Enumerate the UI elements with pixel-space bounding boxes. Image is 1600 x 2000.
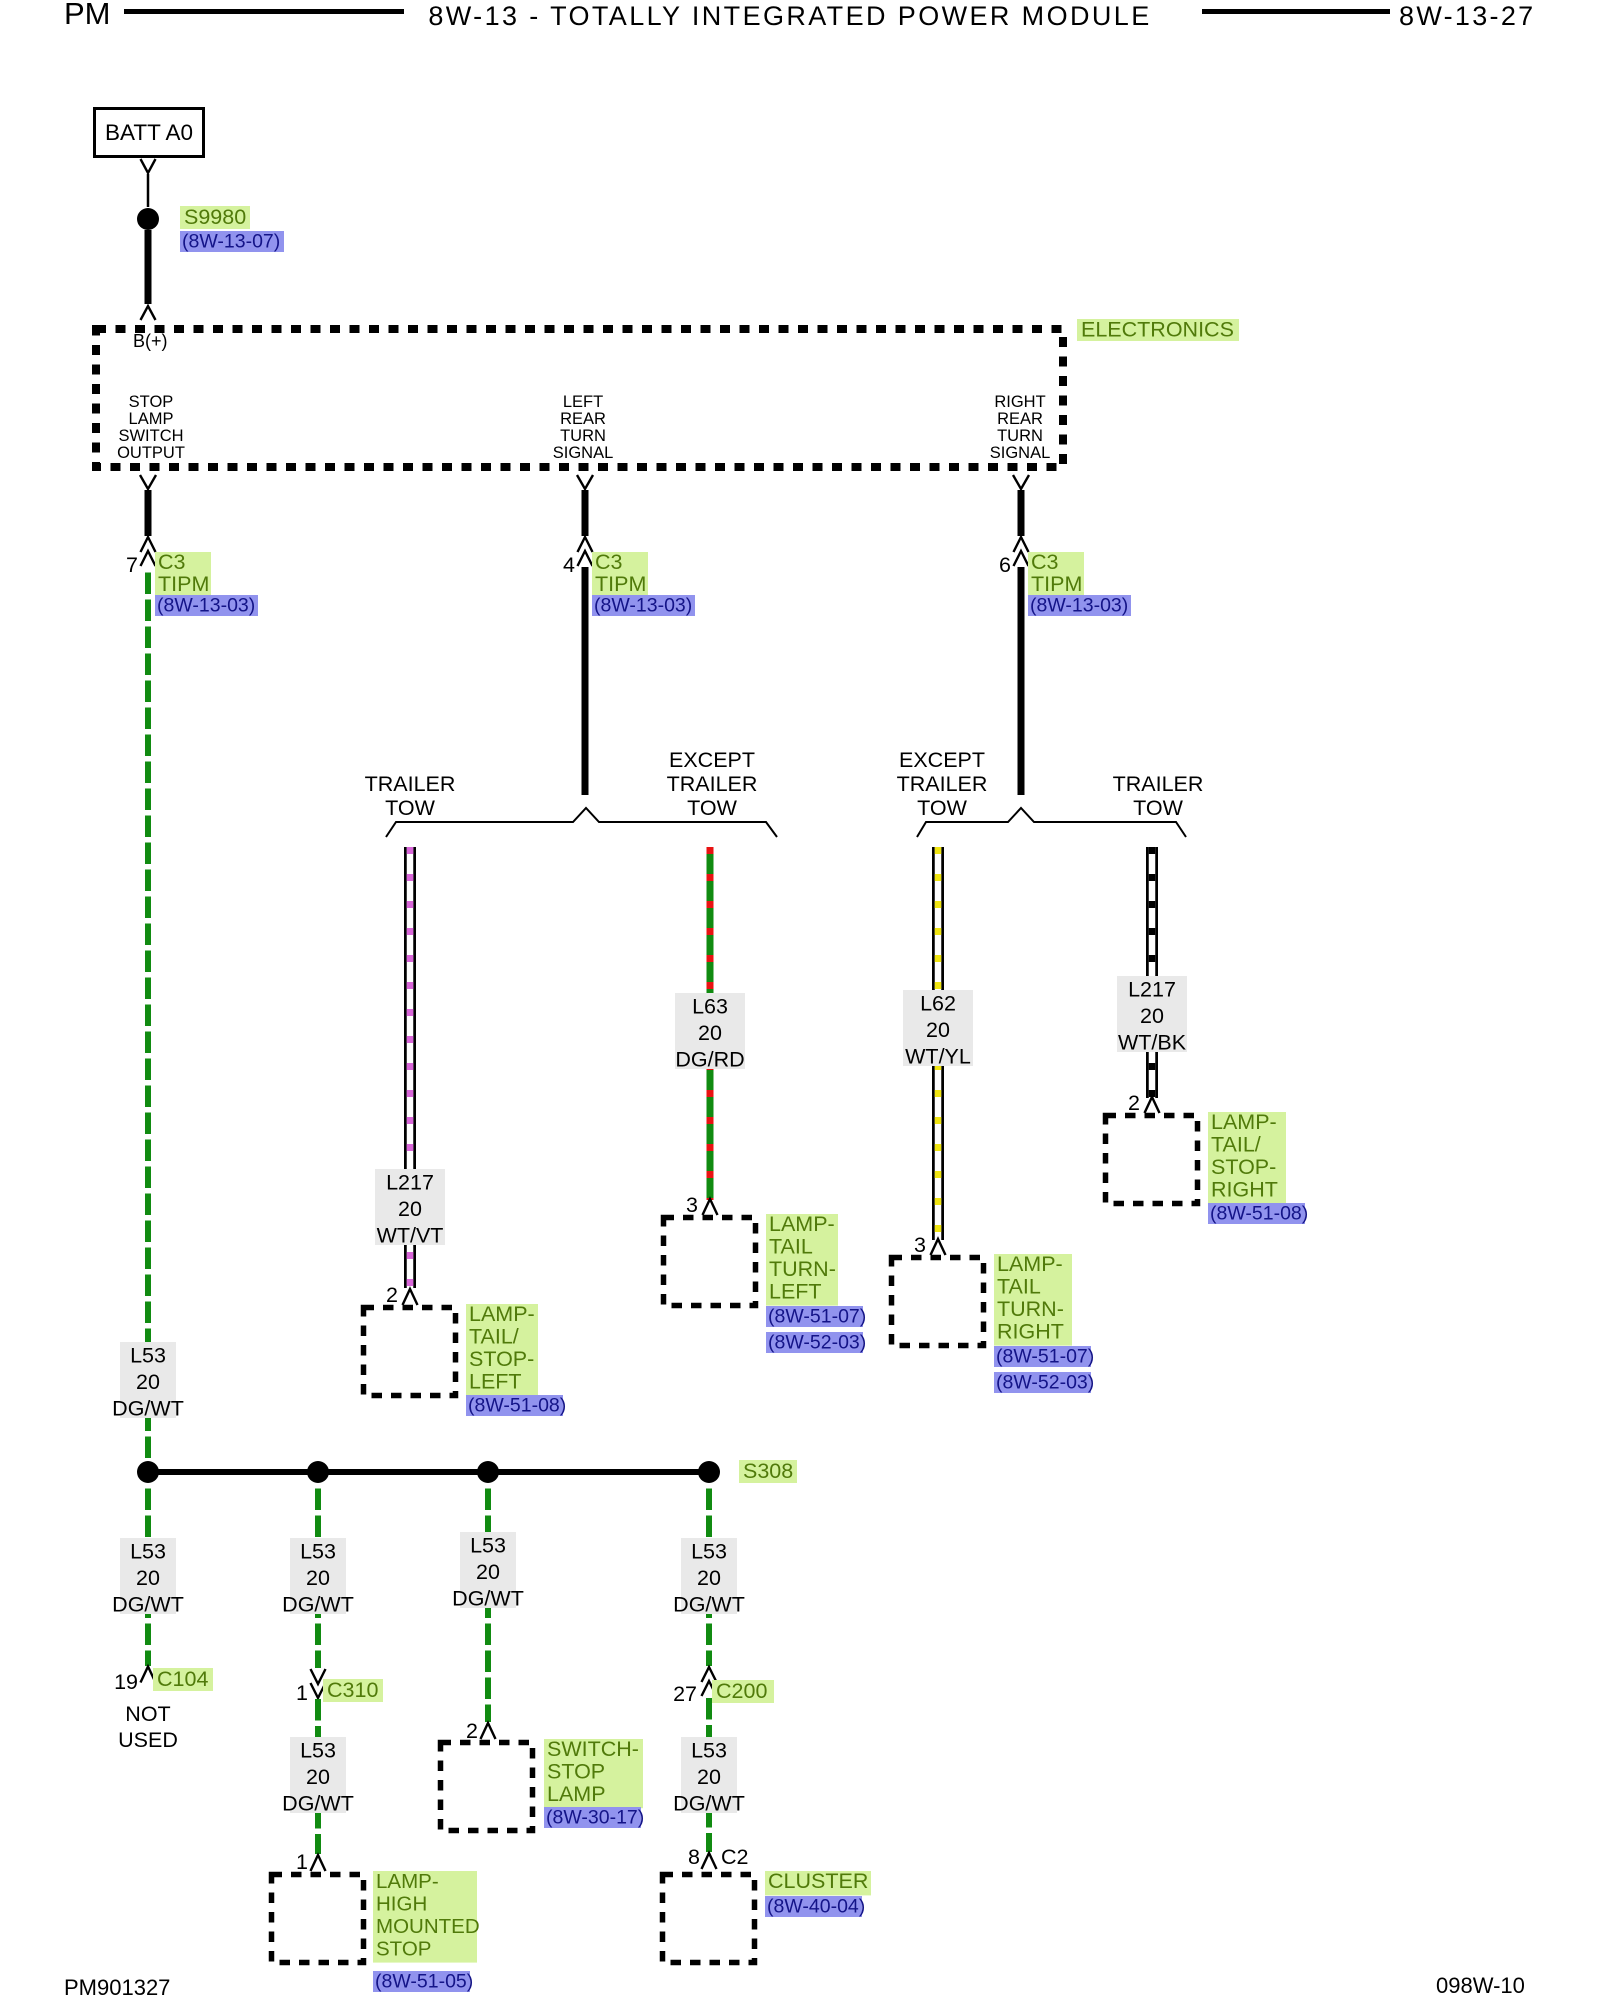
svg-text:C3: C3 bbox=[158, 550, 186, 574]
splice dot S308 #2 bbox=[307, 1461, 329, 1483]
splice dot S308 #1 bbox=[137, 1461, 159, 1483]
svg-text:(8W-30-17): (8W-30-17) bbox=[546, 1807, 644, 1829]
wire from S9980 to TIPM B(+) bbox=[145, 230, 152, 304]
connector half-arrow at TIPM B(+) input bbox=[141, 306, 156, 320]
label C3 TIPM (right) bbox=[1028, 552, 1084, 598]
brace splitting left rear turn signal bbox=[386, 808, 777, 837]
svg-text:TURN: TURN bbox=[560, 427, 606, 445]
svg-text:LAMP-: LAMP- bbox=[769, 1212, 835, 1236]
label (8W-13-07) bbox=[180, 231, 284, 252]
in-line connector C3 (double chevron) bbox=[1014, 537, 1029, 552]
svg-text:HIGH: HIGH bbox=[376, 1893, 427, 1916]
svg-text:7: 7 bbox=[126, 553, 138, 577]
svg-text:(8W-51-08): (8W-51-08) bbox=[1210, 1203, 1308, 1225]
connector half-arrow into lamp tail turn right bbox=[931, 1239, 946, 1255]
svg-text:DG/WT: DG/WT bbox=[112, 1397, 184, 1421]
svg-text:L53: L53 bbox=[691, 1739, 727, 1763]
wire L53 20 DG/WT drop 4 upper bbox=[706, 1483, 712, 1666]
svg-text:TOW: TOW bbox=[1133, 796, 1183, 820]
wire right rear turn signal trunk (right column) bbox=[1018, 567, 1025, 795]
svg-text:TIPM: TIPM bbox=[1031, 572, 1082, 596]
svg-text:(8W-13-03): (8W-13-03) bbox=[157, 595, 255, 617]
connector half-arrow into lamp high mounted stop bbox=[311, 1855, 326, 1871]
svg-text:LAMP-: LAMP- bbox=[376, 1870, 439, 1893]
in-line connector C3 (double chevron) bbox=[578, 537, 593, 552]
svg-text:NOT: NOT bbox=[125, 1702, 170, 1726]
svg-text:C2: C2 bbox=[721, 1845, 748, 1869]
svg-text:27: 27 bbox=[673, 1682, 697, 1706]
label C310 bbox=[323, 1679, 383, 1702]
connector half-arrow into lamp tail/stop left bbox=[403, 1289, 418, 1305]
svg-text:STOP: STOP bbox=[376, 1937, 431, 1960]
label C3 TIPM (center) bbox=[592, 552, 648, 598]
svg-text:20: 20 bbox=[398, 1197, 422, 1221]
svg-text:TRAILER: TRAILER bbox=[667, 772, 758, 796]
svg-text:DG/WT: DG/WT bbox=[282, 1792, 354, 1816]
label (8W-51-07) right bbox=[994, 1346, 1091, 1367]
svg-text:TURN-: TURN- bbox=[769, 1257, 836, 1281]
splice bus S308 bbox=[148, 1469, 709, 1475]
svg-text:2: 2 bbox=[466, 1719, 478, 1743]
label LAMP-TAIL/STOP-RIGHT bbox=[1208, 1112, 1286, 1204]
svg-text:LAMP: LAMP bbox=[547, 1782, 606, 1806]
svg-text:SWITCH: SWITCH bbox=[118, 427, 183, 445]
svg-text:TAIL/: TAIL/ bbox=[1211, 1133, 1261, 1157]
wire L217 20 WT/VT bbox=[404, 847, 416, 1288]
svg-text:B(+): B(+) bbox=[133, 331, 168, 351]
connector half-arrow into lamp tail/stop right bbox=[1145, 1097, 1160, 1113]
svg-text:20: 20 bbox=[306, 1765, 330, 1789]
svg-text:C3: C3 bbox=[595, 550, 623, 574]
wire label L53 20 DG/WT drop 4 lower bbox=[681, 1737, 737, 1813]
svg-text:LAMP: LAMP bbox=[129, 410, 174, 428]
connector half-arrow at TIPM output x=585 bbox=[577, 475, 593, 489]
svg-text:L53: L53 bbox=[130, 1540, 166, 1564]
svg-text:LEFT: LEFT bbox=[769, 1279, 822, 1303]
svg-text:L53: L53 bbox=[130, 1344, 166, 1368]
wire TIPM output stub bbox=[145, 490, 152, 536]
wire label L63 20 DG/RD bbox=[675, 993, 745, 1069]
module box TIPM ELECTRONICS (dashed) bbox=[96, 329, 1063, 467]
label (8W-52-03) right bbox=[994, 1372, 1091, 1393]
svg-text:TOW: TOW bbox=[917, 796, 967, 820]
svg-text:L53: L53 bbox=[691, 1540, 727, 1564]
svg-text:SWITCH-: SWITCH- bbox=[547, 1737, 639, 1761]
svg-text:LAMP-: LAMP- bbox=[469, 1302, 535, 1326]
svg-text:20: 20 bbox=[697, 1765, 721, 1789]
label LAMP-TAIL TURN-LEFT bbox=[766, 1214, 838, 1306]
label (8W-52-03) left bbox=[766, 1332, 863, 1353]
svg-text:(8W-51-07): (8W-51-07) bbox=[768, 1306, 866, 1328]
splice S9980 bbox=[137, 208, 159, 230]
wire L217 20 WT/BK bbox=[1146, 847, 1158, 1098]
label C200 bbox=[712, 1680, 774, 1703]
svg-text:STOP-: STOP- bbox=[469, 1347, 534, 1371]
svg-text:WT/VT: WT/VT bbox=[377, 1224, 444, 1248]
label (8W-30-17) bbox=[544, 1807, 641, 1828]
wire L53 20 DG/WT drop 4 lower bbox=[706, 1698, 712, 1852]
svg-text:BATT A0: BATT A0 bbox=[105, 120, 193, 145]
connector half-arrow at BATT A0 output bbox=[141, 159, 156, 173]
svg-text:CLUSTER: CLUSTER bbox=[768, 1869, 868, 1893]
svg-text:DG/WT: DG/WT bbox=[673, 1593, 745, 1617]
svg-text:(8W-51-05): (8W-51-05) bbox=[375, 1971, 473, 1993]
wire label L53 20 DG/WT drop 2 bbox=[290, 1538, 346, 1614]
component box LAMP-TAIL/STOP-RIGHT (dashed) bbox=[1106, 1116, 1198, 1204]
svg-text:8: 8 bbox=[688, 1845, 700, 1869]
svg-text:TAIL: TAIL bbox=[769, 1235, 813, 1259]
wire label L62 20 WT/YL bbox=[903, 990, 973, 1066]
svg-text:OUTPUT: OUTPUT bbox=[117, 444, 185, 462]
svg-text:RIGHT: RIGHT bbox=[997, 1319, 1064, 1343]
svg-text:6: 6 bbox=[999, 553, 1011, 577]
svg-text:TRAILER: TRAILER bbox=[897, 772, 988, 796]
svg-text:ELECTRONICS: ELECTRONICS bbox=[1081, 318, 1234, 342]
svg-text:20: 20 bbox=[136, 1566, 160, 1590]
svg-text:L53: L53 bbox=[470, 1534, 506, 1558]
svg-text:C3: C3 bbox=[1031, 550, 1059, 574]
svg-text:20: 20 bbox=[926, 1018, 950, 1042]
svg-text:C104: C104 bbox=[157, 1667, 208, 1691]
svg-text:LEFT: LEFT bbox=[563, 393, 603, 411]
wire label L53 20 DG/WT trunk bbox=[120, 1342, 176, 1418]
wire L53 20 DG/WT drop 2 lower bbox=[315, 1699, 321, 1854]
connector half-arrow at TIPM output x=148 bbox=[140, 475, 156, 489]
component box LAMP-TAIL/STOP-LEFT (dashed) bbox=[364, 1308, 456, 1396]
svg-text:PM901327: PM901327 bbox=[64, 1975, 170, 2000]
label (8W-51-08) left bbox=[466, 1395, 563, 1416]
svg-text:(8W-51-07): (8W-51-07) bbox=[996, 1346, 1094, 1368]
connector half-arrow at TIPM output x=1021 bbox=[1013, 475, 1029, 489]
svg-text:TURN: TURN bbox=[997, 427, 1043, 445]
svg-text:19: 19 bbox=[114, 1670, 138, 1694]
svg-text:DG/WT: DG/WT bbox=[282, 1593, 354, 1617]
svg-text:DG/RD: DG/RD bbox=[675, 1048, 744, 1072]
svg-text:RIGHT: RIGHT bbox=[994, 393, 1045, 411]
svg-text:SIGNAL: SIGNAL bbox=[553, 444, 614, 462]
svg-text:2: 2 bbox=[386, 1283, 398, 1307]
svg-text:L217: L217 bbox=[1128, 978, 1176, 1002]
connector half-arrow into lamp tail turn left bbox=[703, 1199, 718, 1215]
wire L53 20 DG/WT drop 3 bbox=[485, 1483, 491, 1722]
svg-text:TIPM: TIPM bbox=[158, 572, 209, 596]
component box LAMP-TAIL TURN-LEFT (dashed) bbox=[664, 1218, 756, 1306]
svg-text:TIPM: TIPM bbox=[595, 572, 646, 596]
connector half-arrow into switch-stop lamp bbox=[481, 1723, 496, 1739]
label (8W-13-03) (center) bbox=[592, 595, 695, 616]
wire TIPM output stub bbox=[1018, 490, 1025, 536]
svg-text:(8W-52-03): (8W-52-03) bbox=[996, 1372, 1094, 1394]
svg-text:S308: S308 bbox=[743, 1459, 793, 1483]
svg-text:(8W-13-03): (8W-13-03) bbox=[1030, 595, 1128, 617]
svg-text:STOP-: STOP- bbox=[1211, 1155, 1276, 1179]
svg-text:20: 20 bbox=[306, 1566, 330, 1590]
svg-text:REAR: REAR bbox=[997, 410, 1043, 428]
svg-text:3: 3 bbox=[686, 1193, 698, 1217]
svg-text:WT/BK: WT/BK bbox=[1118, 1031, 1187, 1055]
header rule left bbox=[124, 9, 404, 14]
svg-text:RIGHT: RIGHT bbox=[1211, 1177, 1278, 1201]
wire L53 20 DG/WT drop 2 upper bbox=[315, 1483, 321, 1668]
svg-text:3: 3 bbox=[914, 1233, 926, 1257]
svg-text:DG/WT: DG/WT bbox=[673, 1792, 745, 1816]
svg-text:20: 20 bbox=[697, 1566, 721, 1590]
svg-text:TOW: TOW bbox=[385, 796, 435, 820]
svg-text:(8W-13-03): (8W-13-03) bbox=[594, 595, 692, 617]
svg-text:DG/WT: DG/WT bbox=[112, 1593, 184, 1617]
svg-text:L217: L217 bbox=[386, 1171, 434, 1195]
svg-text:C310: C310 bbox=[327, 1678, 378, 1702]
wire label L53 20 DG/WT drop 4 bbox=[681, 1538, 737, 1614]
svg-text:TRAILER: TRAILER bbox=[1113, 772, 1204, 796]
svg-text:LAMP-: LAMP- bbox=[1211, 1110, 1277, 1134]
label S308 bbox=[739, 1460, 797, 1483]
svg-text:4: 4 bbox=[563, 553, 575, 577]
label ELECTRONICS bbox=[1077, 319, 1239, 341]
wire label L53 20 DG/WT drop 2 lower bbox=[290, 1737, 346, 1813]
header rule right bbox=[1202, 9, 1390, 14]
svg-text:L53: L53 bbox=[300, 1739, 336, 1763]
label LAMP-TAIL TURN-RIGHT bbox=[994, 1254, 1072, 1346]
svg-text:S9980: S9980 bbox=[184, 205, 246, 229]
in-line connector C200 (double chevron) bbox=[702, 1667, 717, 1682]
svg-text:TAIL/: TAIL/ bbox=[469, 1325, 519, 1349]
svg-text:SIGNAL: SIGNAL bbox=[990, 444, 1051, 462]
svg-text:(8W-52-03): (8W-52-03) bbox=[768, 1332, 866, 1354]
svg-text:(8W-51-08): (8W-51-08) bbox=[468, 1395, 566, 1417]
wire label L53 20 DG/WT drop 1 bbox=[120, 1538, 176, 1614]
battery feed box BATT A0 bbox=[95, 109, 204, 157]
svg-text:STOP: STOP bbox=[129, 393, 174, 411]
label (8W-13-03) (left) bbox=[155, 595, 258, 616]
svg-text:L63: L63 bbox=[692, 995, 728, 1019]
svg-text:2: 2 bbox=[1128, 1091, 1140, 1115]
label (8W-51-08) right bbox=[1208, 1203, 1305, 1224]
svg-text:LAMP-: LAMP- bbox=[997, 1252, 1063, 1276]
wire L53 20 DG/WT trunk (left column) bbox=[145, 567, 151, 1466]
svg-text:1: 1 bbox=[296, 1850, 308, 1874]
svg-text:PM: PM bbox=[64, 0, 111, 31]
wire label L53 20 DG/WT drop 3 bbox=[460, 1532, 516, 1608]
label (8W-40-04) bbox=[765, 1896, 862, 1917]
svg-text:20: 20 bbox=[1140, 1004, 1164, 1028]
label LAMP-HIGH MOUNTED STOP bbox=[373, 1871, 477, 1963]
svg-text:(8W-13-07): (8W-13-07) bbox=[182, 231, 280, 253]
svg-text:REAR: REAR bbox=[560, 410, 606, 428]
svg-text:MOUNTED: MOUNTED bbox=[376, 1915, 480, 1938]
label CLUSTER bbox=[765, 1871, 871, 1895]
connector half-arrow into cluster bbox=[702, 1853, 717, 1869]
connector C104 (half chevron) bbox=[141, 1667, 156, 1683]
wire fusible link A0 bbox=[147, 174, 150, 207]
svg-text:C200: C200 bbox=[716, 1679, 767, 1703]
wire left rear turn signal trunk (center column) bbox=[582, 567, 589, 795]
wire TIPM output stub bbox=[582, 490, 589, 536]
svg-text:DG/WT: DG/WT bbox=[452, 1587, 524, 1611]
in-line connector C3 (double chevron) bbox=[141, 537, 156, 552]
splice dot S308 #4 bbox=[698, 1461, 720, 1483]
svg-text:TOW: TOW bbox=[687, 796, 737, 820]
svg-text:L62: L62 bbox=[920, 992, 956, 1016]
label (8W-13-03) (right) bbox=[1028, 595, 1131, 616]
svg-text:USED: USED bbox=[118, 1728, 178, 1752]
component box CLUSTER (dashed) bbox=[663, 1875, 755, 1963]
label (8W-51-07) left bbox=[766, 1306, 863, 1327]
svg-text:8W-13 - TOTALLY INTEGRATED POW: 8W-13 - TOTALLY INTEGRATED POWER MODULE bbox=[428, 1, 1151, 31]
label S9980 bbox=[180, 206, 250, 229]
svg-text:098W-10: 098W-10 bbox=[1436, 1973, 1525, 1998]
component box LAMP-HIGH MOUNTED STOP (dashed) bbox=[272, 1875, 364, 1963]
wire label L217 20 WT/VT bbox=[375, 1169, 445, 1245]
wire L63 20 DG/RD bbox=[707, 847, 714, 1200]
svg-text:TAIL: TAIL bbox=[997, 1275, 1041, 1299]
svg-text:LEFT: LEFT bbox=[469, 1369, 522, 1393]
label SWITCH-STOP LAMP bbox=[544, 1739, 643, 1808]
label C104 bbox=[153, 1668, 213, 1691]
component box LAMP-TAIL TURN-RIGHT (dashed) bbox=[892, 1258, 984, 1346]
label C3 TIPM (left) bbox=[155, 552, 211, 598]
svg-text:(8W-40-04): (8W-40-04) bbox=[767, 1896, 865, 1918]
svg-text:20: 20 bbox=[136, 1370, 160, 1394]
svg-text:WT/YL: WT/YL bbox=[905, 1045, 971, 1069]
brace splitting right rear turn signal bbox=[917, 808, 1186, 837]
svg-text:1: 1 bbox=[296, 1681, 308, 1705]
svg-text:20: 20 bbox=[698, 1021, 722, 1045]
label LAMP-TAIL/STOP-LEFT bbox=[466, 1304, 538, 1396]
svg-text:L53: L53 bbox=[300, 1540, 336, 1564]
component box SWITCH-STOP LAMP (dashed) bbox=[441, 1743, 533, 1831]
svg-text:TRAILER: TRAILER bbox=[365, 772, 456, 796]
svg-text:TURN-: TURN- bbox=[997, 1297, 1064, 1321]
label (8W-51-05) bbox=[373, 1971, 470, 1992]
svg-text:20: 20 bbox=[476, 1560, 500, 1584]
svg-text:EXCEPT: EXCEPT bbox=[899, 748, 985, 772]
wire label L217 20 WT/BK bbox=[1117, 976, 1187, 1052]
svg-text:8W-13-27: 8W-13-27 bbox=[1399, 1, 1535, 31]
svg-text:EXCEPT: EXCEPT bbox=[669, 748, 755, 772]
svg-text:STOP: STOP bbox=[547, 1760, 605, 1784]
in-line connector C310 (double chevron down) bbox=[311, 1669, 326, 1684]
wire L62 20 WT/YL bbox=[932, 847, 944, 1240]
wire L53 20 DG/WT drop 1 bbox=[145, 1483, 151, 1666]
splice dot S308 #3 bbox=[477, 1461, 499, 1483]
